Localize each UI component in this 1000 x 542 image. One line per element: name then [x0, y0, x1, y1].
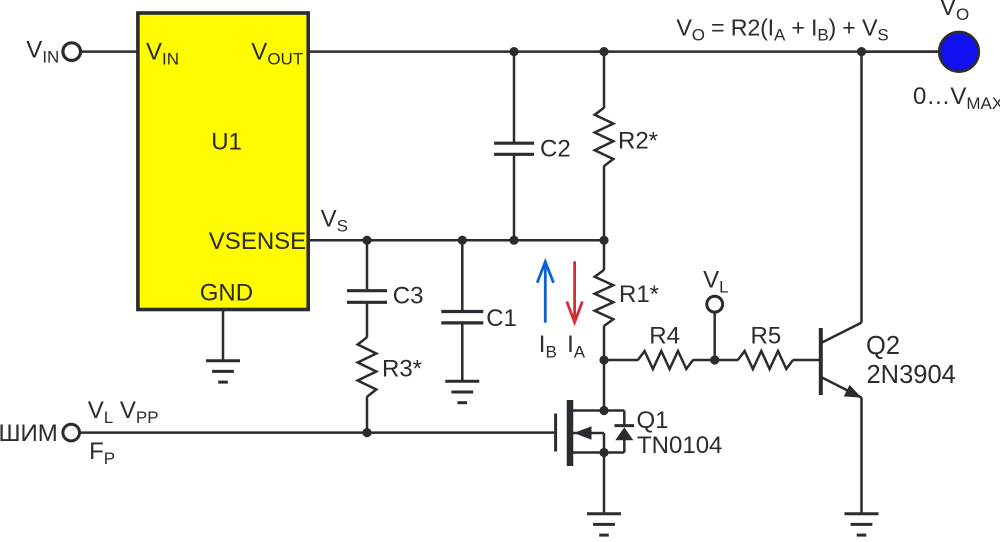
- capacitor C3: [347, 291, 387, 303]
- wire C2 upper: [513, 52, 516, 142]
- svg-text:R5: R5: [751, 322, 782, 349]
- resistor R4: [638, 351, 693, 369]
- node dot VSENSE C1: [458, 236, 467, 245]
- svg-text:0…VMAX: 0…VMAX: [913, 83, 1000, 113]
- transistor Q2: [821, 323, 862, 398]
- svg-text:VIN: VIN: [26, 37, 59, 67]
- resistor R1: [595, 270, 614, 326]
- resistor R3: [358, 337, 377, 396]
- wire C1 upper: [461, 240, 464, 310]
- wire VIN input: [81, 50, 139, 53]
- svg-text:R1*: R1*: [619, 281, 659, 308]
- wire R2 upper: [603, 52, 606, 108]
- svg-text:VSENSE: VSENSE: [209, 228, 306, 255]
- wire Q2 collector rail: [860, 52, 863, 323]
- wire VL terminal: [713, 313, 716, 360]
- svg-text:R2*: R2*: [618, 127, 658, 154]
- wire R4 to VL node: [693, 359, 739, 362]
- wire U1 GND pin: [222, 310, 225, 360]
- node dot PWM R3: [362, 428, 371, 437]
- current arrow IA: [567, 261, 583, 322]
- wire Q1 source to ground: [603, 453, 606, 513]
- terminal VO: [939, 32, 978, 71]
- wire C1 to ground: [461, 324, 464, 380]
- wire PWM input: [80, 431, 555, 434]
- svg-text:VO: VO: [940, 0, 969, 24]
- svg-text:Q1: Q1: [637, 407, 669, 434]
- svg-text:FP: FP: [89, 438, 115, 468]
- regulator U1 body: [138, 13, 308, 310]
- diode Q1 body: [615, 411, 635, 453]
- svg-text:GND: GND: [200, 279, 253, 306]
- terminal VIN: [63, 43, 81, 61]
- svg-text:R4: R4: [649, 322, 680, 349]
- wire VSENSE: [308, 239, 604, 242]
- capacitor C2: [494, 143, 534, 154]
- node dot top Q2 collector: [857, 47, 866, 56]
- wire Q1 drain: [603, 360, 606, 411]
- wire R2 lower: [603, 166, 606, 240]
- wire base node R4 R5: [604, 359, 638, 362]
- wire VO to terminal: [862, 50, 939, 53]
- capacitor C1: [441, 312, 483, 323]
- ground Q1: [587, 514, 621, 535]
- svg-text:R3*: R3*: [382, 356, 422, 383]
- svg-text:VL VPP: VL VPP: [88, 397, 159, 427]
- svg-text:TN0104: TN0104: [637, 432, 722, 459]
- node dot VSENSE C2: [509, 236, 518, 245]
- node dot VSENSE C3: [362, 236, 371, 245]
- wire VOUT top rail: [308, 50, 939, 53]
- current arrow IB: [537, 262, 553, 323]
- wire R1 lower: [603, 326, 606, 360]
- node dot top C2: [509, 47, 518, 56]
- node dot VSENSE R1: [599, 236, 608, 245]
- wire C3 to R3: [366, 304, 369, 338]
- terminal VL: [707, 296, 723, 312]
- svg-text:2N3904: 2N3904: [867, 361, 956, 389]
- transistor Q1 mosfet: [556, 400, 625, 466]
- svg-text:ШИМ: ШИМ: [0, 420, 58, 447]
- svg-text:IB: IB: [539, 331, 557, 362]
- resistor R2: [595, 108, 614, 166]
- svg-text:VO = R2(IA + IB) + VS: VO = R2(IA + IB) + VS: [676, 14, 888, 44]
- node dot top R2: [599, 47, 608, 56]
- node dot R1 R4: [599, 355, 608, 364]
- wire C3 upper: [366, 240, 369, 289]
- svg-text:C2: C2: [540, 136, 571, 163]
- ground U1: [206, 361, 240, 382]
- svg-text:VS: VS: [321, 206, 348, 236]
- ground C1: [445, 381, 479, 402]
- ground Q2: [845, 514, 879, 535]
- svg-text:C1: C1: [486, 305, 517, 332]
- wire R5 to Q2 base: [793, 359, 819, 362]
- svg-text:U1: U1: [211, 129, 242, 156]
- svg-text:VL: VL: [703, 266, 728, 296]
- terminal PWM: [63, 424, 80, 441]
- resistor R5: [738, 351, 793, 369]
- wire Q2 emitter to ground: [860, 398, 863, 513]
- wire C2 lower: [513, 154, 516, 240]
- wire R1 upper: [603, 240, 606, 270]
- wire R3 lower: [366, 397, 369, 433]
- svg-text:Q2: Q2: [866, 332, 900, 360]
- node dot Q1 source: [599, 448, 608, 457]
- svg-text:IA: IA: [567, 331, 586, 362]
- svg-text:C3: C3: [393, 283, 424, 310]
- node dot VL: [710, 355, 719, 364]
- node dot Q1 drain: [599, 406, 608, 415]
